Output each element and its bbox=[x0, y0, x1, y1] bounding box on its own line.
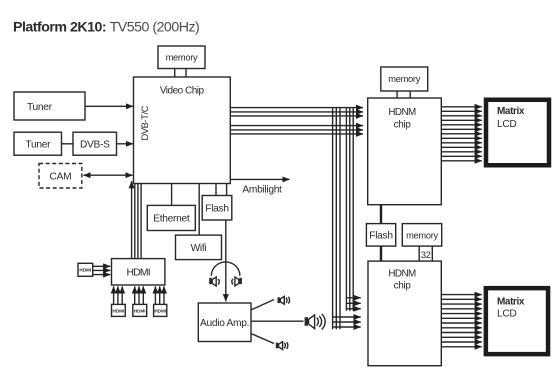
wire HDMI connectors bottom to HDMI (9 arrows) bbox=[114, 286, 164, 304]
wire Video Chip to Wifi bbox=[198, 184, 200, 236]
Video Chip box bbox=[134, 77, 231, 184]
wire DVB-S to Video Chip (arrow) bbox=[117, 143, 134, 145]
wire HDMI to Video Chip (3 lines) bbox=[135, 184, 141, 259]
wire memory to Video Chip (2-line bus) bbox=[175, 69, 186, 78]
svg-text:HDMI: HDMI bbox=[79, 268, 91, 273]
HDMI connector (left) bbox=[78, 263, 93, 276]
HDMI box bbox=[112, 259, 165, 285]
svg-text:LCD: LCD bbox=[497, 119, 516, 130]
CAM box (dashed) bbox=[39, 164, 82, 189]
speaker icon (centre large) bbox=[305, 314, 326, 329]
wire Tuner to Video Chip (arrow) bbox=[85, 105, 133, 107]
headphones icon bbox=[209, 262, 242, 286]
svg-text:HDNM: HDNM bbox=[388, 269, 416, 280]
Wifi box bbox=[176, 235, 222, 260]
svg-text:Video Chip: Video Chip bbox=[160, 86, 205, 97]
Audio Amp box bbox=[198, 303, 251, 342]
Tuner box (top) bbox=[14, 92, 85, 120]
svg-text:Flash: Flash bbox=[205, 203, 228, 214]
svg-text:Ambilight: Ambilight bbox=[242, 185, 282, 196]
svg-text:LCD: LCD bbox=[497, 308, 516, 319]
speaker icon (bottom) bbox=[276, 342, 288, 350]
HDMI connector (bottom 1) bbox=[112, 304, 126, 316]
HDNM chip 2 box bbox=[368, 261, 441, 366]
svg-text:HDNM: HDNM bbox=[388, 107, 416, 118]
svg-text:Ethernet: Ethernet bbox=[153, 214, 190, 225]
svg-text:Tuner: Tuner bbox=[25, 139, 51, 150]
svg-text:memory: memory bbox=[388, 74, 420, 84]
svg-text:HDMI: HDMI bbox=[134, 308, 146, 313]
svg-text:Wifi: Wifi bbox=[191, 243, 207, 254]
Tuner box (bottom) bbox=[14, 132, 62, 155]
memory box (HDNM 1) bbox=[381, 67, 428, 91]
HDMI connector (bottom 3) bbox=[154, 304, 167, 316]
svg-text:32: 32 bbox=[421, 250, 431, 260]
wire memory to HDNM chip 1 (2-line bus) bbox=[397, 91, 410, 98]
wire HDMI connector left to HDMI (3 arrows) bbox=[93, 266, 111, 274]
wire Audio Amp to centre speaker bbox=[251, 320, 304, 322]
wire Audio Amp to top speaker bbox=[251, 300, 274, 311]
wire HDNM chip 1 to Flash (thick) bbox=[380, 205, 382, 224]
wire video bus to HDNM chip 1 (6 arrows) bbox=[230, 108, 363, 134]
svg-text:DVB-T/C: DVB-T/C bbox=[139, 105, 150, 140]
wire HDMI to Video Chip (arrow up) bbox=[131, 181, 133, 258]
HDMI connector (bottom 2) bbox=[133, 304, 147, 316]
svg-text:Tuner: Tuner bbox=[27, 102, 53, 113]
wire video bus vertical drops (6 lines) bbox=[333, 108, 354, 330]
svg-text:memory: memory bbox=[406, 230, 438, 240]
wire HDNM chip 1 to Matrix LCD 1 (13 arrows) bbox=[441, 107, 482, 161]
svg-text:HDMI: HDMI bbox=[154, 308, 166, 313]
svg-text:HDMI: HDMI bbox=[127, 267, 150, 278]
wire video bus into HDNM chip 2 (6 arrows) bbox=[333, 298, 361, 327]
wire CAM to Video Chip (double arrow) bbox=[84, 174, 133, 176]
svg-text:DVB-S: DVB-S bbox=[80, 139, 110, 150]
speaker icon (top) bbox=[278, 296, 290, 304]
svg-text:Platform 2K10: TV550 (200Hz): Platform 2K10: TV550 (200Hz) bbox=[13, 19, 199, 35]
svg-text:chip: chip bbox=[394, 280, 412, 291]
wire Flash to HDNM chip 2 (thick) bbox=[380, 246, 382, 261]
Ethernet box bbox=[147, 205, 195, 230]
memory box (HDNM 2) bbox=[402, 224, 441, 247]
svg-text:CAM: CAM bbox=[50, 172, 72, 183]
svg-text:HDMI: HDMI bbox=[113, 308, 125, 313]
svg-text:Matrix: Matrix bbox=[497, 106, 525, 117]
wire Audio Amp to bottom speaker bbox=[251, 334, 274, 344]
wire Video Chip to Ethernet bbox=[171, 184, 173, 206]
Flash box (video) bbox=[202, 196, 232, 221]
wire Video Chip to Flash (2-line bus) bbox=[216, 184, 227, 196]
Flash box (HDNM) bbox=[366, 224, 395, 247]
Matrix LCD 1 box bbox=[486, 100, 549, 166]
HDNM chip 1 box bbox=[368, 98, 442, 205]
svg-text:Flash: Flash bbox=[369, 230, 392, 241]
wire HDNM chip 2 to Matrix LCD 2 (12 arrows) bbox=[441, 295, 482, 347]
wire Tuner to DVB-S bbox=[62, 143, 74, 145]
wire Ambilight output (arrow) bbox=[230, 178, 289, 180]
wire memory to HDNM chip 2 (2-line bus) bbox=[419, 246, 432, 261]
svg-text:memory: memory bbox=[166, 53, 198, 63]
DVB-S box bbox=[73, 132, 117, 155]
svg-text:chip: chip bbox=[394, 120, 412, 131]
svg-text:Audio Amp.: Audio Amp. bbox=[200, 318, 249, 329]
svg-text:Matrix: Matrix bbox=[497, 296, 525, 307]
memory (video chip) box bbox=[158, 46, 205, 69]
wire Flash to Audio Amp (arrow down) bbox=[225, 220, 227, 301]
Matrix LCD 2 box bbox=[486, 288, 548, 354]
